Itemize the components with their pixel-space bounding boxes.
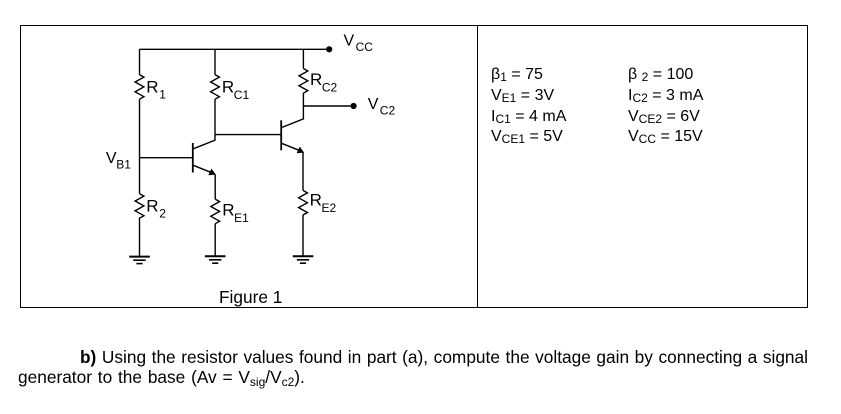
svg-text:R: R xyxy=(310,191,322,210)
wire R2 to ground xyxy=(139,217,141,256)
ground (RE2) xyxy=(293,256,314,263)
label VC2 xyxy=(368,96,396,118)
svg-text:V: V xyxy=(368,96,379,113)
label RE1 xyxy=(222,200,249,225)
figure outer box xyxy=(20,25,808,308)
wire R1 to R2 (through node VB1) xyxy=(139,99,141,193)
ground (RE1) xyxy=(205,256,226,263)
wire RE1 to ground xyxy=(214,224,216,256)
ground (R2) xyxy=(129,257,150,264)
svg-text:B1: B1 xyxy=(116,158,131,172)
wire rail to RC1 xyxy=(214,49,216,74)
svg-text:C2: C2 xyxy=(322,81,338,95)
wire RC1 to Q1 collector node xyxy=(214,99,216,134)
figure caption xyxy=(219,287,282,308)
label RE2 xyxy=(310,191,337,216)
node VC2 terminal dot xyxy=(351,103,357,109)
resistor R1 xyxy=(135,75,144,100)
wire left branch upper (rail to R1) xyxy=(139,49,141,74)
svg-text:R: R xyxy=(222,78,234,97)
wire Q1 emitter to RE1 xyxy=(214,174,216,199)
label RC2 xyxy=(310,70,338,95)
wire RE2 to ground xyxy=(302,215,304,256)
problem text line 1 xyxy=(18,347,808,367)
node VCC terminal dot xyxy=(326,46,332,52)
resistor RE1 xyxy=(211,199,220,224)
wire RC2 to Q2 collector node xyxy=(302,93,304,106)
svg-text:E2: E2 xyxy=(322,201,337,215)
svg-text:C1: C1 xyxy=(234,88,250,102)
transistor Q2 xyxy=(281,106,304,153)
svg-text:R: R xyxy=(146,196,158,215)
wire VCC top rail xyxy=(140,48,327,50)
label VCC xyxy=(344,32,374,54)
problem text line 2 xyxy=(18,367,305,387)
label R1 xyxy=(146,78,166,102)
parameter list column 1 xyxy=(491,65,566,148)
resistor RE2 xyxy=(299,190,308,215)
svg-text:CC: CC xyxy=(356,40,374,54)
resistor RC1 xyxy=(211,75,220,100)
svg-text:E1: E1 xyxy=(234,211,249,225)
node VB1 wire to Q1 base xyxy=(140,157,193,159)
resistor RC2 xyxy=(299,69,308,94)
svg-text:R: R xyxy=(310,70,322,89)
wire Q1 collector node to Q2 base xyxy=(215,134,281,136)
label RC1 xyxy=(222,78,250,103)
wire collector node to VC2 terminal xyxy=(303,105,350,107)
svg-text:C2: C2 xyxy=(380,103,396,117)
svg-text:1: 1 xyxy=(159,88,166,102)
svg-text:R: R xyxy=(146,78,158,97)
label R2 xyxy=(146,196,166,220)
transistor Q1 xyxy=(193,135,216,176)
resistor R2 xyxy=(135,194,144,219)
svg-text:V: V xyxy=(344,32,355,49)
svg-text:R: R xyxy=(222,200,234,219)
wire rail to RC2 xyxy=(302,49,304,68)
divider between circuit and parameters xyxy=(477,25,478,307)
wire Q2 emitter to RE2 xyxy=(302,152,304,190)
svg-text:2: 2 xyxy=(159,206,166,220)
parameter list column 2 xyxy=(628,65,703,148)
label VB1 xyxy=(106,150,131,172)
